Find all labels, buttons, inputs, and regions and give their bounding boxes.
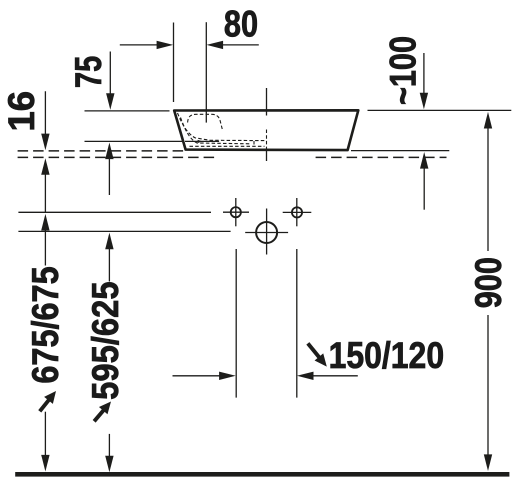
- 900 dimension line upper segment: [487, 128, 489, 252]
- svg-text:~100: ~100: [383, 36, 424, 105]
- 900 dimension line lower segment: [487, 315, 489, 457]
- drain dashed vertical: [253, 141, 255, 146]
- dimension 75 vertical line: [109, 52, 111, 96]
- big hole circle: [256, 222, 277, 243]
- small hole right: crosshair h: [283, 211, 312, 213]
- bottom inner dashed line: [190, 145, 265, 147]
- dashed counter bottom line right segment: [316, 156, 447, 158]
- 595 dimension line upper segment: [108, 248, 110, 281]
- svg-text:150/120: 150/120: [329, 335, 445, 376]
- dashed counter bottom line left segment: [18, 156, 218, 158]
- big hole crosshair v: [266, 209, 268, 255]
- ~100 dimension upper line: [423, 53, 425, 94]
- dimension 150/120 line left part: [173, 375, 221, 377]
- centre line dashed through drain: [266, 130, 268, 149]
- svg-text:900: 900: [468, 257, 509, 308]
- arrow up tip under big hole line (595 dim): [105, 233, 113, 250]
- washbasin outline (side view): [174, 110, 358, 150]
- inner overflow hump dashed: [188, 114, 223, 130]
- arrow down to floor (675): [41, 455, 49, 472]
- small hole left: crosshair v: [235, 198, 237, 226]
- line from 16 arrow down to holes line: [44, 174, 46, 212]
- ~100 dimension lower line: [423, 168, 425, 210]
- 595 line segment below counter: [108, 158, 110, 195]
- small hole right: crosshair v: [296, 198, 298, 226]
- inner bowl dashed curve 1: [178, 113, 266, 141]
- arrow left at x=206.3: [207, 41, 224, 49]
- svg-text:16: 16: [1, 91, 42, 132]
- centre line below basin: [266, 149, 268, 162]
- svg-text:80: 80: [224, 3, 258, 44]
- rim reference line right: [368, 109, 512, 111]
- arrow down to rim at 110.3: [106, 93, 114, 110]
- small hole right circle: [292, 207, 302, 217]
- arrow down to floor (595): [105, 456, 113, 473]
- floor line: [15, 472, 509, 477]
- arrow left at x=297: [297, 372, 314, 380]
- extension line right of 80: [205, 22, 207, 122]
- leader arrow NE for 675/675: [35, 387, 60, 414]
- dimension 80 line right part: [220, 44, 259, 46]
- arrow up to counter (~100): [420, 152, 428, 169]
- arrow up tip at counter bottom (16 dim): [41, 158, 49, 175]
- small hole left circle: [231, 207, 241, 217]
- big hole crosshair h: [245, 232, 288, 234]
- counter line continued into basin with flow arrow: [185, 140, 219, 142]
- extension line below right small hole: [296, 249, 298, 398]
- rim reference line left: [85, 110, 170, 112]
- centre line above rim: [266, 88, 268, 116]
- arrow down to floor (900): [484, 454, 492, 471]
- extension line below left small hole: [235, 249, 237, 398]
- leader arrow NE for 595/625: [90, 398, 115, 425]
- counter surface line left: [85, 140, 186, 142]
- 675 dimension line lower segment: [44, 412, 46, 458]
- big hole axis line: [18, 230, 230, 232]
- arrow down tip at counter top (16 dim): [41, 134, 49, 151]
- arrow right at x=236: [219, 372, 236, 380]
- small hole left: crosshair h: [223, 211, 249, 213]
- arrow down to rim (~100): [420, 93, 428, 110]
- inner bowl dashed curve 2: [181, 118, 251, 144]
- 675 dimension line upper segment: [44, 230, 46, 266]
- dimension 150/120 line right part: [312, 375, 358, 377]
- dashed counter top line left: [18, 150, 186, 152]
- arrow up tip under holes line (675 dim): [41, 214, 49, 231]
- 900 dimension arrow up at rim line: [484, 112, 492, 129]
- left dimension stack line x=45.4 upper: [44, 91, 46, 136]
- leader arrow SE for 150/120: [303, 340, 331, 370]
- dimension 80 line left part: [120, 44, 160, 46]
- 595 dimension top arrow up at counter line: [105, 143, 113, 160]
- holes axis line (small holes): [18, 211, 211, 213]
- arrow right at x=173.5: [157, 41, 174, 49]
- 595 dimension line lower segment: [108, 434, 110, 459]
- extension line left of 80: [173, 23, 175, 103]
- counter surface line right of basin: [351, 150, 449, 152]
- svg-text:75: 75: [68, 56, 109, 88]
- svg-text:675/675: 675/675: [25, 266, 66, 383]
- svg-text:595/625: 595/625: [85, 281, 126, 400]
